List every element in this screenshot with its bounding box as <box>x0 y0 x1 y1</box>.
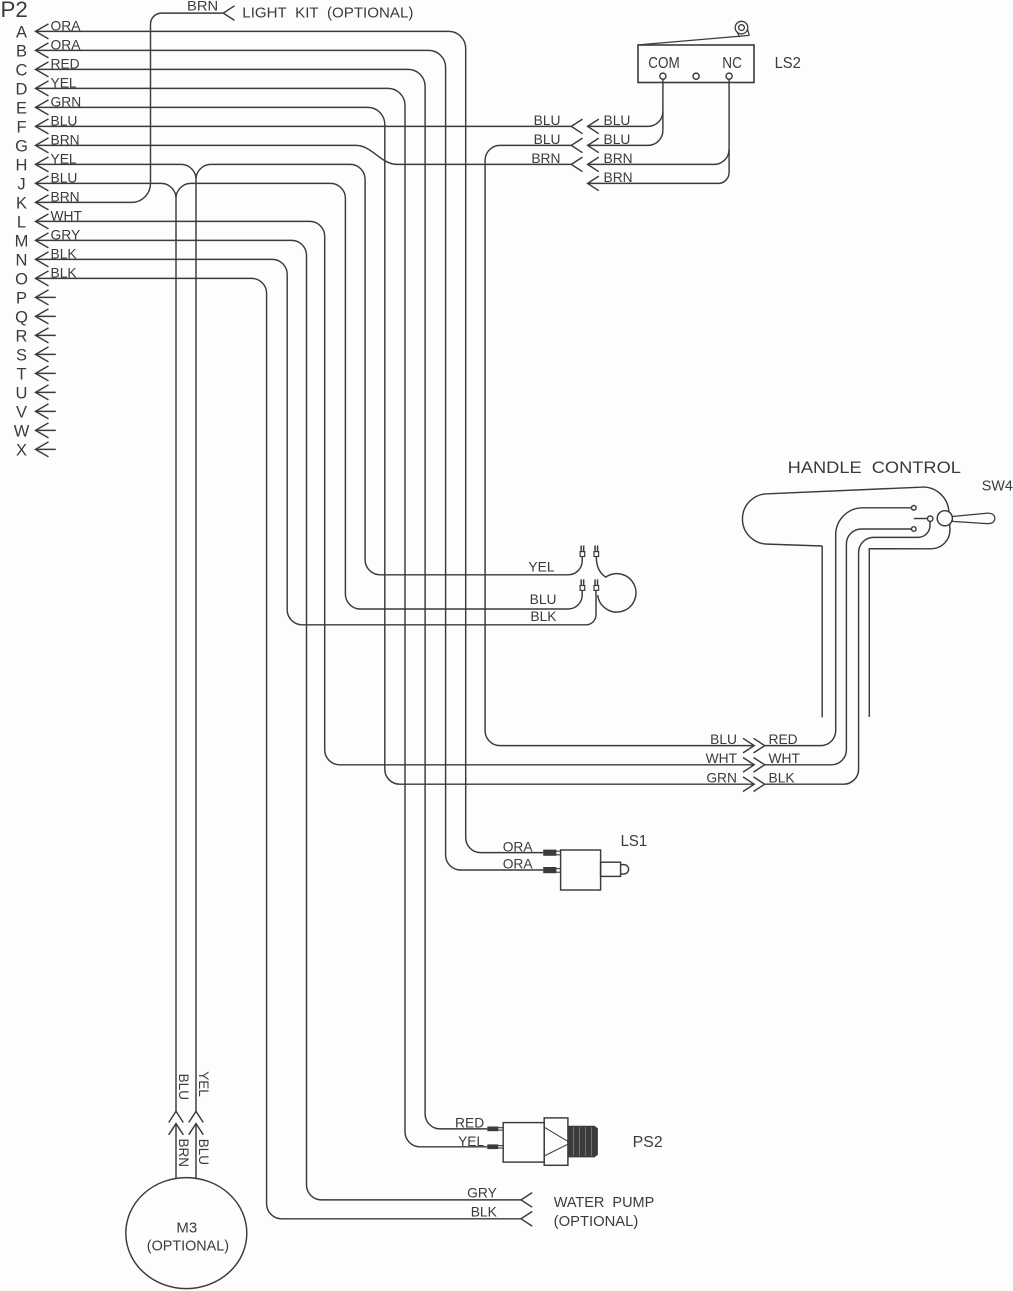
svg-text:F: F <box>16 119 26 137</box>
svg-text:L: L <box>17 214 26 232</box>
svg-text:ORA: ORA <box>503 857 534 872</box>
svg-text:COM: COM <box>648 55 679 72</box>
svg-text:RED: RED <box>769 732 798 747</box>
svg-text:O: O <box>15 271 28 289</box>
svg-text:ORA: ORA <box>503 839 534 854</box>
svg-text:BRN: BRN <box>531 151 560 166</box>
svg-text:X: X <box>16 442 27 460</box>
svg-text:BLK: BLK <box>471 1204 498 1219</box>
svg-text:BLU: BLU <box>710 732 737 747</box>
svg-text:RED: RED <box>455 1115 484 1130</box>
svg-text:SW4: SW4 <box>982 479 1013 495</box>
svg-text:N: N <box>16 252 28 270</box>
svg-text:D: D <box>16 81 28 99</box>
svg-text:S: S <box>16 347 27 365</box>
svg-text:WHT: WHT <box>769 751 801 766</box>
svg-text:A: A <box>16 24 27 42</box>
svg-text:BLU: BLU <box>176 1074 191 1100</box>
svg-text:Q: Q <box>15 309 28 327</box>
svg-text:BLU: BLU <box>534 113 561 128</box>
svg-text:V: V <box>16 404 27 422</box>
svg-text:G: G <box>15 138 28 156</box>
svg-text:LS2: LS2 <box>775 55 801 72</box>
svg-text:BRN: BRN <box>187 0 218 13</box>
svg-text:WATER PUMP: WATER PUMP <box>554 1195 655 1211</box>
svg-text:T: T <box>16 366 26 384</box>
svg-text:P: P <box>16 290 27 308</box>
svg-text:LIGHT KIT (OPTIONAL): LIGHT KIT (OPTIONAL) <box>242 5 413 21</box>
svg-text:B: B <box>16 43 27 61</box>
svg-text:NC: NC <box>722 55 742 72</box>
svg-text:HANDLE CONTROL: HANDLE CONTROL <box>788 458 961 477</box>
svg-text:BLK: BLK <box>769 770 796 785</box>
svg-text:LS1: LS1 <box>621 833 648 850</box>
svg-text:W: W <box>14 423 30 441</box>
svg-text:YEL: YEL <box>528 560 554 575</box>
svg-text:BLU: BLU <box>530 592 557 607</box>
svg-text:M: M <box>15 233 29 251</box>
svg-text:YEL: YEL <box>458 1134 484 1149</box>
svg-text:GRN: GRN <box>706 770 737 785</box>
svg-text:R: R <box>16 328 28 346</box>
svg-text:U: U <box>16 385 28 403</box>
svg-text:(OPTIONAL): (OPTIONAL) <box>554 1214 639 1230</box>
svg-text:J: J <box>17 176 25 194</box>
svg-text:P2: P2 <box>1 0 28 22</box>
svg-text:WHT: WHT <box>706 751 738 766</box>
svg-text:H: H <box>16 157 28 175</box>
svg-text:(OPTIONAL): (OPTIONAL) <box>147 1239 229 1255</box>
svg-text:YEL: YEL <box>196 1071 211 1097</box>
svg-text:E: E <box>16 100 27 118</box>
svg-text:BRN: BRN <box>176 1139 191 1168</box>
svg-text:BLU: BLU <box>196 1139 211 1165</box>
svg-text:M3: M3 <box>176 1220 197 1236</box>
svg-text:K: K <box>16 195 27 213</box>
svg-text:BLK: BLK <box>530 609 557 624</box>
svg-text:GRY: GRY <box>467 1186 497 1201</box>
svg-text:C: C <box>16 62 28 80</box>
svg-text:PS2: PS2 <box>633 1134 663 1151</box>
